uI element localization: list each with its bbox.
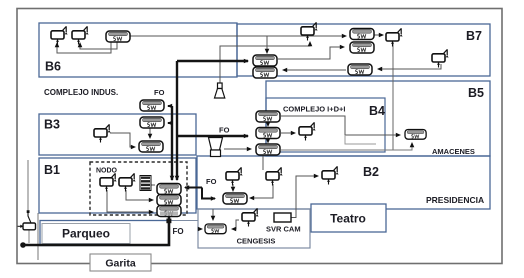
arrows into NODO stack top [171,176,173,180]
monitor M4 (B7) [301,22,318,40]
switch S10c (NODO stack) [157,206,181,217]
tower T2 [209,138,223,157]
monitor M3 (B3) [94,124,111,142]
switch S4b (left stack) [253,67,277,78]
wire B6 switch to left stack [129,36,267,53]
wire B4 switch to monitor M7 [281,132,295,134]
svg-text:FO: FO [206,177,217,186]
monitor M9 (NODO) [119,173,136,191]
switch S12 (CENGESIS) [205,224,226,234]
thick FO line to B4 stack [177,135,248,137]
monitor M11 (B2) [266,167,283,185]
switch S2a (B7) [350,29,374,40]
thick stub from S6 [168,122,172,124]
wire into CENGESIS switch from top [212,209,214,220]
switch S11 (FO B2) [223,193,247,204]
svg-text:Garita: Garita [105,258,136,270]
switch S9 (AMACENES) [405,130,426,140]
wire SVR CAM to monitor M12 [291,176,318,218]
wire B6 loop to monitor M1 [57,41,111,53]
monitor M8 (NODO) [100,173,117,191]
wire B3 monitor to switch S7 [110,133,135,147]
wire B4 bottom switch down to monitor M11 [262,155,264,170]
switch S8b (B4 stack) [256,128,280,139]
svg-text:FO: FO [173,227,184,236]
switch S10b (NODO stack) [157,195,181,206]
svg-text:PRESIDENCIA: PRESIDENCIA [426,195,484,205]
tower T1 [215,83,225,98]
wire to Garita [37,213,39,260]
wire left stack to B7 switch pair [278,47,344,59]
svg-text:B7: B7 [466,29,482,43]
monitor M5 (B7) [386,28,403,46]
monitor M12 (B2) [322,166,339,184]
monitor M7 (B4) [299,122,316,140]
svg-text:Parqueo: Parqueo [62,227,110,241]
box CENGESIS [198,209,310,248]
svg-text:NODO: NODO [96,168,118,175]
svg-text:B6: B6 [45,60,61,74]
wire camera stub [28,230,30,243]
wire S8c to S9 bottom [281,143,412,150]
monitor M6 (B7) [432,49,449,67]
wire S6 to S7 [149,128,151,138]
box B3 [39,114,196,155]
switch S2b (B7) [350,42,374,53]
wire monitor M6 to switch S3 [378,64,441,69]
thick stub from S5 [168,105,172,107]
switch S8a (B4 stack) [256,111,280,122]
thick FO backbone vertical 1 [176,61,178,180]
wire S8a to S8b [267,122,269,126]
wire B4 stack to AMACENES switch [281,116,400,135]
switch S5 (FO row) [140,100,164,111]
wire left stack to switch S3 [283,69,346,71]
switch S8c (B4 stack) [256,144,280,155]
svg-text:B1: B1 [44,163,60,177]
wire tower2 to switch S8c [224,148,251,150]
monitor M1 (B6) [51,26,68,44]
thick link NODO stack to FO switch S11 [185,187,202,189]
switch S1 (B6) [106,31,130,42]
thick FO line to left stack [177,60,248,62]
wire server to stack [151,184,155,186]
junction dot [20,242,26,248]
box NODO dashed [90,162,187,215]
wire left vertical [27,160,29,210]
thick FO backbone vertical 2 [171,106,173,180]
switch S10a (NODO stack) [157,184,181,195]
box B6 [39,23,237,77]
wire into CENGESIS switch left [198,228,202,230]
wire monitor M13 to CENGESIS switch [232,220,239,229]
switch S6 (B3) [140,117,164,128]
wire stub mid B4 [345,135,376,144]
wire S8b to S8c [267,139,269,143]
box B2 [197,156,490,209]
wire B7 switch to monitor M5 [374,34,383,36]
box B5 [266,81,490,156]
wire NODO monitor M8 to stack [107,190,153,212]
SVR CAM box icon [274,213,291,222]
junction square [166,219,171,224]
svg-text:AMACENES: AMACENES [432,147,475,156]
wire B6 loop to monitor M2 [80,41,117,49]
svg-text:B4: B4 [369,104,385,118]
box Teatro [311,204,386,232]
svg-text:CENGESIS: CENGESIS [237,237,276,246]
switch S4a (left stack) [253,55,277,66]
box B7 [237,24,490,76]
box B1 [39,158,196,213]
svg-text:Teatro: Teatro [330,212,366,226]
svg-text:B3: B3 [44,118,60,132]
box B4 [266,98,385,152]
wire monitor M11 to S11 right [250,184,273,198]
box Parqueo container [40,221,169,246]
thick line NODO down to bottom [24,216,169,245]
monitor M10 (B2) [226,167,243,185]
svg-text:COMPLEJO INDUS.: COMPLEJO INDUS. [44,88,118,97]
server stack (NODO) [140,176,151,191]
svg-text:B5: B5 [468,86,484,100]
wire monitor M5 down [392,42,394,150]
switch S3 (B7) [348,64,372,75]
box Parqueo label [42,224,130,244]
wire long line above Parqueo and Cengesis [40,220,198,222]
wire B6 to B7 switch [267,35,346,37]
camera icon left [18,210,36,230]
box Garita [90,254,151,271]
wire tower to monitor M4 [220,42,310,83]
svg-text:FO: FO [154,88,165,97]
monitor M13 (CENGESIS) [242,208,259,226]
svg-text:SVR CAM: SVR CAM [266,225,301,234]
svg-text:COMPLEJO I+D+I: COMPLEJO I+D+I [283,105,346,114]
svg-text:FO: FO [219,126,230,135]
svg-text:B2: B2 [363,165,379,179]
monitor M2 (B6) [72,26,89,44]
wire monitor M10 down to S11 [232,184,234,191]
wire NODO monitor M9 to stack [126,190,153,200]
switch S7 (B3 lower) [139,141,163,152]
